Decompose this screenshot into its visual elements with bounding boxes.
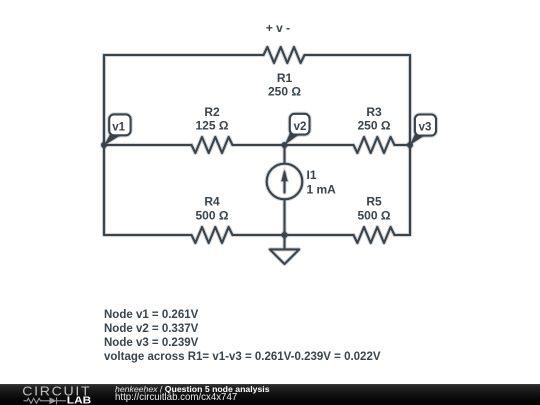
- node analysis results text: [104, 308, 381, 364]
- logo diode glyph: [50, 397, 67, 404]
- crisp pass for node boxes: [109, 114, 436, 136]
- logo resistor glyph: [24, 398, 50, 403]
- svg-text:500 Ω: 500 Ω: [196, 209, 229, 223]
- crisp pass for wires: [104, 47, 410, 264]
- svg-text:+ v -: + v -: [266, 21, 290, 35]
- soft halo pass for filled marks: [101, 132, 425, 239]
- svg-text:R5: R5: [366, 195, 382, 209]
- crisp pass for filled marks: [101, 132, 425, 239]
- footer url line: [115, 392, 237, 403]
- svg-text:I1: I1: [307, 168, 317, 182]
- svg-text:v1: v1: [112, 121, 125, 133]
- svg-text:1 mA: 1 mA: [307, 183, 337, 197]
- svg-text:v3: v3: [419, 121, 432, 133]
- svg-text:LAB: LAB: [67, 396, 92, 405]
- svg-text:R3: R3: [366, 105, 382, 119]
- svg-text:v2: v2: [294, 121, 307, 133]
- soft halo pass for node boxes: [109, 114, 436, 136]
- svg-text:500 Ω: 500 Ω: [358, 209, 391, 223]
- footer bar: [0, 384, 540, 405]
- svg-text:250 Ω: 250 Ω: [358, 119, 391, 133]
- footer title line: [115, 384, 270, 394]
- svg-text:250 Ω: 250 Ω: [268, 85, 301, 99]
- svg-text:R2: R2: [204, 105, 220, 119]
- svg-text:R4: R4: [204, 195, 220, 209]
- svg-text:125 Ω: 125 Ω: [196, 119, 229, 133]
- soft halo pass for wires: [104, 47, 410, 264]
- svg-text:R1: R1: [277, 71, 293, 85]
- CircuitLab logo: [0, 384, 110, 405]
